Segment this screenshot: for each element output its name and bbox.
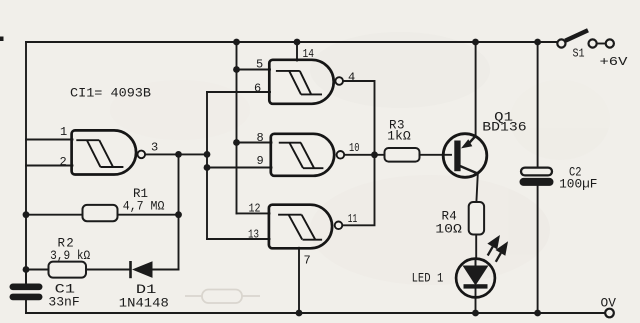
svg-text:S1: S1 [573,47,585,60]
svg-text:5: 5 [256,58,263,72]
wire: Q1 collector to R4 [476,174,477,202]
capacitor C1 plates [10,284,43,301]
svg-text:10Ω: 10Ω [435,223,462,237]
junction: output 3 to bus B [204,151,211,158]
svg-text:7: 7 [304,254,311,268]
junction: pin 8 [233,139,240,146]
svg-text:1: 1 [60,125,67,139]
svg-text:13: 13 [248,228,259,242]
svg-text:3: 3 [151,141,158,155]
wire: output 4 to bus C [343,81,375,155]
transistor Q1 [443,134,487,178]
LED light arrows [488,238,507,262]
wire: pin 14 supply [296,42,298,61]
wire: pin 13 input [207,238,270,240]
wire: R3 to Q1 base [420,154,452,156]
wire: pin 9 input [207,167,272,169]
wire: pin 12 input [237,212,270,214]
svg-text:33nF: 33nF [48,296,79,310]
gate U1a hysteresis symbol [76,140,123,167]
wire: pin 8 input [237,142,272,144]
gate U1c hysteresis symbol [279,143,324,169]
svg-text:R4: R4 [442,210,457,224]
svg-text:4: 4 [348,71,355,85]
wire: C1 top lead [25,270,27,285]
wire: R4 to LED1 [475,235,477,260]
svg-text:BD136: BD136 [482,121,526,135]
capacitor C2 plates [521,168,552,176]
junction: LED1 to 0V rail [472,310,479,317]
svg-text:+6V: +6V [600,55,629,69]
gate U1a output bubble (pin 3) [138,151,146,159]
wire: R1 left lead [26,214,81,216]
wire: bus A (+V to pins 5,8,12) [236,42,238,213]
wire: feedback vertical (out3 to R1/D1) [178,154,180,269]
LED1 [456,259,495,298]
resistor R1 body [83,205,118,221]
gate U1b output bubble (pin 4) [335,77,343,85]
wire: pin 6 input [207,91,270,93]
switch S1 [557,30,614,47]
+6V terminal circle [606,39,614,47]
junction: output 3 to feedback [175,151,182,158]
svg-text:10: 10 [349,141,360,155]
svg-text:OV: OV [601,297,617,311]
junction: bus A to +V rail [233,39,240,46]
svg-text:C1: C1 [55,283,75,297]
wire: bottom 0V rail [26,312,605,314]
wire: C2 top lead [537,42,539,168]
wire: bus B (pin6 / out3 / pin9 / pin13) [206,92,208,239]
junction: C2 to +V rail [534,39,541,46]
junction: pin 7 to 0V rail [296,310,303,317]
junction: outputs bus to R3 [371,151,378,158]
gate U1d body (pins 12,13 -> 11) [269,205,332,249]
wire: pin 5 input [237,69,271,71]
0V terminal circle [605,309,614,318]
svg-text:1kΩ: 1kΩ [387,129,411,143]
gate U1c body (pins 8,9 -> 10) [271,134,334,176]
wire: R1 right lead [117,214,179,216]
junction: R1 left [23,211,30,218]
junction: pin 9 [204,164,211,171]
gate U1d output bubble (pin 11) [335,222,343,230]
wire: left vertical rail [25,42,27,284]
svg-text:D1: D1 [136,283,156,297]
junction: Q1 emitter to +V rail [472,39,479,46]
wire: C2 bottom lead [537,186,539,314]
junction: C2 to 0V rail [534,310,541,317]
svg-text:2: 2 [60,155,67,169]
svg-text:LED 1: LED 1 [412,272,444,286]
wire: output 11 to bus C [342,155,374,226]
wire: output 3 [145,153,207,155]
svg-text:3,9 kΩ: 3,9 kΩ [50,249,91,263]
scan mark at left edge [0,37,4,42]
wire: top +V rail [26,41,557,43]
resistor R3 body [385,148,420,162]
junction: R1 right [175,211,182,218]
wire: output 10 to R3 [344,154,384,156]
svg-text:14: 14 [303,47,315,61]
gate U1a body (pins 1,2 -> 3) [72,130,136,174]
wire: Q1 emitter from +V rail [475,42,477,136]
gate U1b hysteresis symbol [276,71,322,95]
junction: pin 14 to +V rail [294,39,301,46]
svg-text:4,7 MΩ: 4,7 MΩ [123,199,165,213]
wire: pin 1 input [26,139,73,141]
junction: R2 left / C1 [23,266,30,273]
wire: pin 7 ground [298,248,300,313]
junction: pin 5 [233,66,240,73]
wire: R2 to D1 [86,269,131,271]
wire: D1 to feedback vertical [153,269,179,271]
svg-text:100µF: 100µF [559,178,597,192]
svg-text:1N4148: 1N4148 [119,297,169,311]
resistor R4 body [469,202,484,235]
gate U1b body (pins 5,6 -> 4) [269,60,333,104]
ghost print-through resistor (faint) [185,290,260,304]
gate U1c output bubble (pin 10) [337,151,345,159]
svg-text:11: 11 [348,212,358,226]
svg-text:12: 12 [249,202,261,216]
wire: C1 bottom to 0V rail [25,300,27,313]
wire: LED1 cathode to 0V rail [475,288,477,313]
svg-text:CI1= 4093B: CI1= 4093B [70,86,151,101]
diode D1 [131,261,153,278]
wire: pin 2 input [26,165,73,167]
svg-text:9: 9 [257,154,264,168]
resistor R2 body [49,262,87,278]
svg-text:8: 8 [257,131,264,145]
gate U1d hysteresis symbol [278,215,322,240]
svg-text:6: 6 [254,82,261,96]
wire: R2 left lead [26,269,49,271]
wire: S1 to +6V terminal [597,43,606,45]
